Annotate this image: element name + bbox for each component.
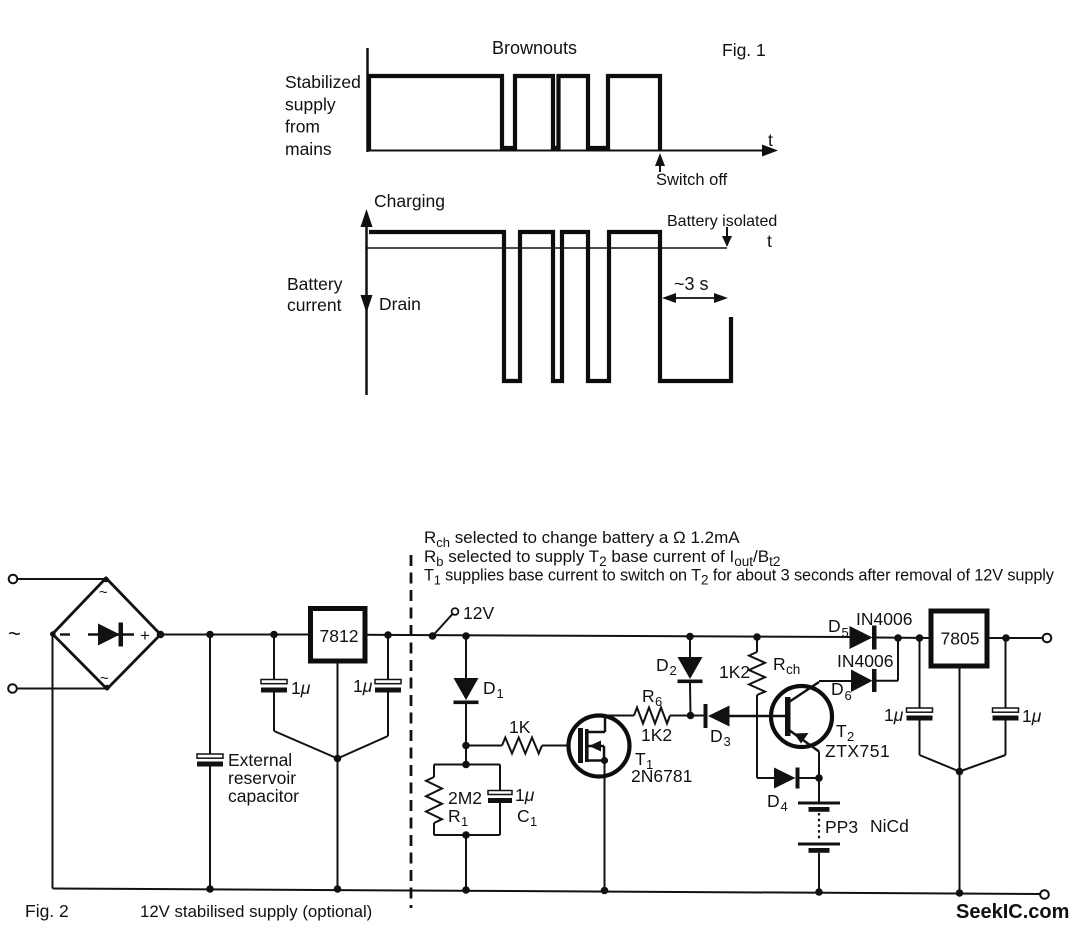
node Rch rail tap — [753, 633, 761, 641]
node D2 rail tap — [686, 633, 694, 641]
svg-text:7812: 7812 — [320, 626, 359, 646]
svg-text:4: 4 — [781, 799, 788, 814]
node reservoir capacitor tap — [206, 631, 214, 639]
svg-text:Fig. 1: Fig. 1 — [722, 40, 766, 60]
svg-text:NiCd: NiCd — [870, 816, 909, 836]
diode D1 — [454, 636, 479, 746]
wire 7812 ground lead — [337, 661, 339, 889]
wire rail 7812 to D5 — [365, 635, 852, 637]
svg-text:D: D — [831, 679, 844, 699]
svg-text:1: 1 — [530, 814, 537, 829]
wire T1 source to ground rail — [604, 761, 606, 891]
output terminal top — [1043, 634, 1052, 643]
node T1 source ground — [601, 887, 609, 895]
svg-text:D: D — [767, 791, 780, 811]
axis Y fig1 top graph — [366, 48, 369, 152]
diode D6 — [851, 638, 898, 692]
svg-text:R: R — [642, 686, 655, 706]
regulator U1 7812 — [311, 609, 366, 662]
input terminal bottom — [8, 684, 17, 693]
svg-text:1K: 1K — [509, 717, 531, 737]
svg-text:capacitor: capacitor — [228, 786, 299, 806]
svg-text:Brownouts: Brownouts — [492, 38, 577, 58]
wire 0V bottom rail — [53, 889, 1045, 895]
svg-text:2: 2 — [670, 663, 677, 678]
svg-text:Battery isolated: Battery isolated — [667, 213, 777, 230]
switch off arrow — [655, 153, 665, 172]
svg-text:IN4006: IN4006 — [856, 609, 912, 629]
capacitor C1 1u — [488, 765, 512, 836]
diode D3 — [691, 704, 786, 728]
svg-text:~: ~ — [99, 584, 108, 601]
svg-text:C: C — [517, 806, 530, 826]
waveform battery current — [369, 232, 731, 381]
resistor 1K gate — [466, 738, 578, 754]
bridge rectifier BR1 — [50, 577, 161, 691]
wire input top — [18, 578, 107, 580]
wire T2 emitter down — [818, 752, 820, 779]
svg-text:current: current — [287, 295, 342, 315]
capacitor C5 1u (7805 output) — [960, 638, 1019, 772]
svg-text:D: D — [710, 726, 723, 746]
svg-text:D: D — [828, 616, 841, 636]
svg-text:reservoir: reservoir — [228, 768, 296, 788]
node 7812 ground join — [334, 755, 342, 763]
svg-text:6: 6 — [845, 688, 852, 703]
diode D5 — [850, 626, 932, 650]
wire R1C1 to ground rail — [465, 835, 467, 890]
svg-text:Fig. 2: Fig. 2 — [25, 901, 69, 921]
node 7805 ground join — [956, 768, 964, 776]
wire T1 drain — [605, 715, 634, 717]
node battery ground — [815, 888, 823, 896]
svg-text:t: t — [767, 231, 772, 251]
svg-text:1: 1 — [461, 814, 468, 829]
svg-text:Battery: Battery — [287, 274, 343, 294]
svg-text:1μ: 1μ — [515, 785, 535, 805]
svg-text:D: D — [656, 655, 669, 675]
svg-text:2N6781: 2N6781 — [631, 766, 692, 786]
svg-text:1: 1 — [497, 686, 504, 701]
battery PP3 — [798, 778, 840, 892]
axis t fig1 bottom thin line — [367, 247, 727, 249]
node bridge + output — [157, 631, 165, 639]
battery isolated arrow — [722, 227, 732, 247]
wire main 12V rail left — [161, 634, 311, 636]
transistor T2 ZTX751 — [730, 682, 833, 752]
dimension arrow ~3 s — [662, 293, 728, 303]
svg-text:1μ: 1μ — [353, 676, 373, 696]
capacitor C3 1u (7812 output) — [338, 635, 402, 759]
regulator U2 7805 — [931, 611, 987, 666]
svg-text:from: from — [285, 117, 320, 137]
svg-text:~: ~ — [8, 621, 21, 646]
svg-text:6: 6 — [655, 694, 662, 709]
node C3 tap — [384, 631, 392, 639]
output terminal bottom — [1040, 890, 1049, 899]
svg-text:R: R — [448, 806, 461, 826]
12V tap switch and terminal — [433, 608, 459, 636]
mosfet T1 2N6781 — [569, 716, 630, 777]
svg-text:+: + — [140, 626, 150, 645]
wire T2 collector to D6 — [819, 680, 851, 682]
svg-text:T: T — [836, 721, 847, 741]
wire R1C1 bottom — [434, 834, 500, 836]
capacitor C2 1u (7812 input) — [261, 635, 338, 759]
svg-text:ch: ch — [786, 662, 800, 677]
svg-text:5: 5 — [842, 625, 849, 640]
node D6 rail join — [894, 634, 902, 642]
svg-text:R: R — [773, 654, 786, 674]
svg-text:12V stabilised supply (optiona: 12V stabilised supply (optional) — [140, 902, 372, 921]
svg-text:ZTX751: ZTX751 — [825, 741, 890, 761]
svg-text:External: External — [228, 750, 292, 770]
svg-text:~3 s: ~3 s — [674, 274, 709, 294]
svg-text:D: D — [483, 678, 496, 698]
node R1C1 bottom — [462, 831, 470, 839]
diode D2 — [678, 637, 703, 716]
input terminal top — [9, 575, 18, 584]
node 7805 ground rail — [956, 889, 964, 897]
node D1 cathode junction — [462, 742, 470, 750]
resistor Rch 1K2 — [749, 637, 765, 778]
svg-text:7805: 7805 — [941, 629, 980, 649]
svg-text:SeekIC.com: SeekIC.com — [956, 901, 1069, 923]
node 12V tap — [429, 632, 437, 640]
wire 7805 output — [987, 637, 1043, 639]
waveform stabilized supply — [369, 76, 660, 150]
svg-text:1μ: 1μ — [291, 678, 311, 698]
svg-text:1K2: 1K2 — [719, 662, 750, 682]
wire input bottom — [17, 688, 107, 690]
wire bridge minus down to 0V rail — [52, 634, 54, 889]
resistor R6 1K2 — [634, 708, 691, 724]
node C5 output tap — [1002, 634, 1010, 642]
svg-text:Switch off: Switch off — [656, 171, 728, 189]
node 7812 ground rail — [334, 885, 342, 893]
node emitter D4 battery junction — [815, 774, 823, 782]
drain direction arrow — [361, 295, 373, 313]
node R1C1 ground — [462, 886, 470, 894]
svg-text:1K2: 1K2 — [641, 725, 672, 745]
node C4 rail tap — [916, 634, 924, 642]
svg-text:1μ: 1μ — [884, 705, 904, 725]
wire R1C1 top — [434, 746, 500, 765]
svg-text:supply: supply — [285, 95, 336, 115]
axis Y fig1 bottom graph (charging arrow) — [361, 209, 373, 395]
svg-text:IN4006: IN4006 — [837, 651, 893, 671]
svg-text:12V: 12V — [463, 603, 494, 623]
svg-text:Charging: Charging — [374, 191, 445, 211]
node reservoir capacitor ground — [206, 885, 214, 893]
node D1 tap — [462, 632, 470, 640]
axis t fig1 top graph — [367, 145, 778, 157]
svg-text:Drain: Drain — [379, 294, 421, 314]
svg-text:~: ~ — [100, 670, 109, 687]
svg-text:1μ: 1μ — [1022, 706, 1042, 726]
svg-text:mains: mains — [285, 139, 332, 159]
capacitor C4 1u (7805 input) — [907, 638, 960, 772]
resistor R1 2M2 — [426, 765, 442, 836]
svg-text:T1 supplies base current to sw: T1 supplies base current to switch on T2… — [424, 567, 1055, 588]
svg-text:Stabilized: Stabilized — [285, 72, 361, 92]
node R1C1 top — [462, 761, 470, 769]
wire 7805 ground lead — [959, 666, 961, 893]
node D2 D3 R6 junction — [687, 712, 695, 720]
external reservoir capacitor — [197, 635, 223, 890]
svg-text:PP3: PP3 — [825, 817, 858, 837]
svg-text:t: t — [768, 130, 773, 150]
svg-text:3: 3 — [724, 734, 731, 749]
node C2 tap — [270, 631, 278, 639]
dashed separator line — [410, 555, 413, 908]
svg-text:2M2: 2M2 — [448, 788, 482, 808]
diode D4 — [757, 768, 819, 789]
